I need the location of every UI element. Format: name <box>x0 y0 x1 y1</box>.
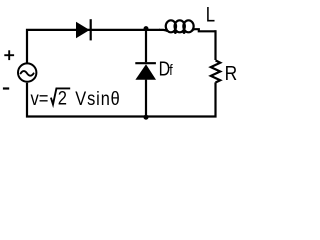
svg-text:v=: v= <box>31 88 49 110</box>
svg-text:R: R <box>225 63 238 86</box>
svg-text:2: 2 <box>58 87 67 109</box>
svg-text:Vsinθ: Vsinθ <box>75 88 120 110</box>
svg-text:L: L <box>206 4 216 27</box>
svg-text:f: f <box>169 62 173 78</box>
